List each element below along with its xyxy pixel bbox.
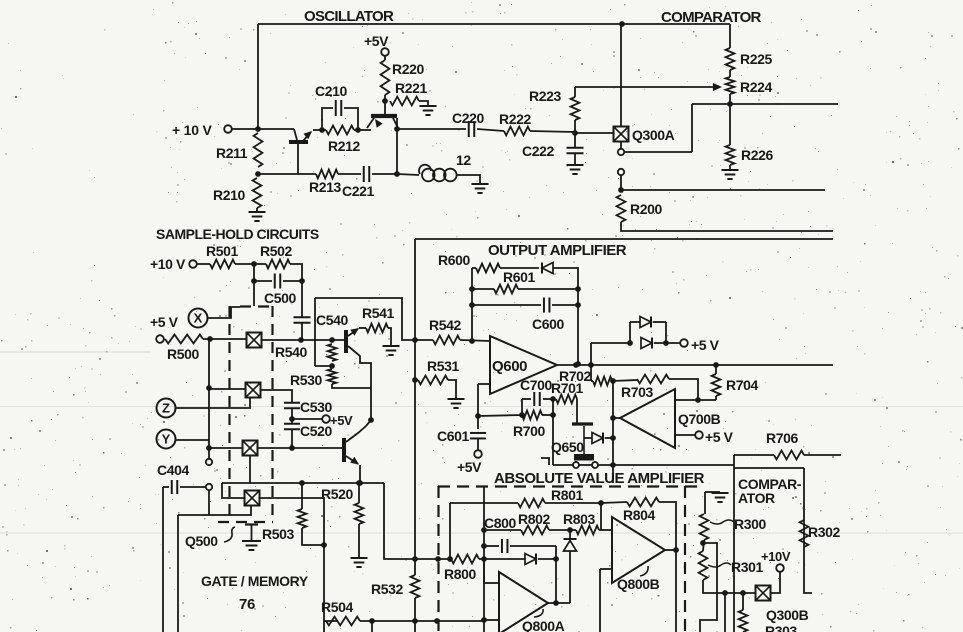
svg-text:Q300A: Q300A	[632, 127, 675, 143]
label ABSOLUTE VALUE AMPLIFIER	[494, 470, 705, 487]
wire	[484, 529, 521, 531]
capacitor C220	[469, 121, 475, 137]
label Q500	[185, 533, 218, 549]
junction	[673, 547, 679, 553]
label SAMPLE-HOLD CIRCUITS	[156, 226, 319, 242]
wire	[576, 399, 578, 423]
svg-text:12: 12	[456, 152, 471, 168]
wire	[548, 602, 570, 604]
terminal	[474, 450, 482, 458]
capacitor C520	[284, 424, 300, 430]
label Q800A	[522, 618, 565, 632]
junction	[567, 527, 573, 533]
label R530	[290, 372, 322, 388]
junction	[412, 618, 418, 624]
wire	[543, 398, 553, 400]
terminal	[618, 169, 624, 175]
wire	[371, 621, 373, 632]
wire	[232, 128, 294, 130]
label R706	[766, 430, 798, 446]
junction	[469, 286, 475, 292]
capacitor C800	[502, 539, 508, 553]
op-amp Q600	[490, 336, 557, 394]
wire	[477, 438, 479, 450]
junction	[356, 480, 362, 486]
junction	[713, 362, 719, 368]
junction	[382, 98, 388, 104]
svg-text:R502: R502	[260, 243, 292, 259]
label R542	[429, 317, 461, 333]
label Q700B	[678, 411, 721, 427]
resistor R532	[411, 575, 420, 598]
label OUTPUT AMPLIFIER	[488, 242, 627, 259]
svg-text:R532: R532	[371, 581, 403, 597]
svg-text:R212: R212	[328, 138, 360, 154]
wire	[729, 70, 731, 77]
wire	[396, 118, 398, 129]
wire	[584, 437, 592, 439]
wire	[313, 129, 326, 131]
resistor R224	[726, 77, 735, 94]
label R704	[726, 377, 758, 393]
svg-text:R701: R701	[551, 380, 583, 396]
junction	[610, 378, 616, 384]
label +5 V	[150, 314, 179, 330]
wire	[729, 165, 731, 169]
junction	[618, 187, 624, 193]
svg-text:R302: R302	[808, 524, 840, 540]
wire	[354, 129, 366, 131]
resistor R211	[254, 133, 263, 167]
svg-text:C601: C601	[437, 428, 469, 444]
wire	[177, 515, 179, 632]
svg-text:R501: R501	[206, 243, 238, 259]
wire	[770, 572, 780, 593]
junction	[394, 126, 400, 132]
resistor R700	[522, 411, 542, 420]
terminal	[618, 149, 624, 155]
wire	[478, 383, 490, 385]
wire	[715, 396, 717, 400]
svg-text:+10 V: +10 V	[150, 256, 186, 272]
label C540	[316, 312, 348, 328]
wire	[483, 487, 485, 632]
diode CR803	[564, 539, 577, 551]
wire	[484, 582, 499, 584]
resistor R502	[266, 260, 290, 269]
svg-text:Q800A: Q800A	[522, 618, 565, 632]
svg-text:R226: R226	[741, 147, 773, 163]
label C600	[532, 316, 564, 332]
wire	[260, 390, 292, 403]
wire	[552, 399, 554, 415]
resistor R226	[726, 145, 735, 165]
wire	[477, 384, 479, 416]
diode CR650	[592, 433, 603, 444]
wire	[359, 465, 361, 483]
svg-text:R706: R706	[766, 430, 798, 446]
label R501	[206, 243, 238, 259]
wire	[315, 298, 415, 340]
junction	[368, 417, 374, 423]
wire	[372, 173, 397, 175]
junction	[722, 590, 728, 596]
terminal	[680, 339, 688, 347]
wire	[358, 483, 360, 503]
wire	[691, 104, 693, 152]
junction	[435, 556, 441, 562]
junction	[481, 617, 487, 623]
label R503	[262, 526, 294, 542]
label R502	[260, 243, 292, 259]
label C220	[452, 110, 484, 126]
label 12	[456, 152, 471, 168]
junction	[329, 337, 335, 343]
capacitor C404	[172, 480, 178, 494]
svg-text:C500: C500	[264, 290, 296, 306]
label R803	[563, 511, 595, 527]
junction	[481, 527, 487, 533]
wire	[541, 458, 549, 465]
junction	[700, 540, 706, 546]
label COMPAR-	[738, 476, 802, 492]
wire	[620, 142, 622, 148]
resistor R541	[366, 324, 388, 333]
wire	[259, 498, 324, 632]
junction	[251, 278, 257, 284]
junction	[519, 412, 525, 418]
wire	[591, 380, 593, 382]
ground	[420, 106, 437, 115]
wire	[715, 365, 717, 374]
label Q800B	[617, 576, 660, 592]
resistor R223	[571, 97, 580, 120]
wire	[665, 322, 667, 343]
svg-text:ATOR: ATOR	[738, 490, 775, 506]
label R212	[328, 138, 360, 154]
resistor R221	[390, 97, 419, 106]
resistor R500	[165, 335, 203, 344]
junction	[481, 556, 487, 562]
capacitor C601	[470, 433, 486, 439]
wire	[599, 569, 601, 632]
wire	[257, 447, 342, 449]
wire	[729, 24, 731, 48]
ground	[448, 399, 465, 408]
wire	[450, 502, 518, 504]
wire	[477, 416, 479, 429]
wire	[235, 263, 266, 265]
wire	[178, 505, 251, 515]
inductor L12	[419, 165, 457, 182]
svg-text:R211: R211	[216, 145, 248, 161]
resistor R801	[518, 499, 545, 508]
wire	[359, 327, 366, 329]
wire	[542, 414, 553, 416]
label R601	[503, 269, 535, 285]
wire	[574, 87, 576, 97]
wire	[396, 129, 398, 174]
label Q300A	[632, 127, 675, 143]
svg-text:76: 76	[239, 596, 255, 613]
label R221	[395, 80, 427, 96]
junction	[321, 542, 327, 548]
svg-text:R300: R300	[734, 516, 766, 532]
wire	[574, 153, 576, 164]
wire	[659, 502, 676, 632]
svg-text:R220: R220	[392, 61, 424, 77]
wire	[414, 239, 416, 575]
wire	[322, 108, 333, 130]
transistor Q540	[346, 328, 371, 420]
wire	[419, 101, 428, 105]
wire	[456, 175, 480, 183]
svg-text:COMPARATOR: COMPARATOR	[661, 9, 762, 26]
wire	[552, 415, 554, 465]
label +5V	[330, 413, 353, 428]
junction	[663, 340, 669, 346]
svg-text:R301: R301	[731, 559, 763, 575]
wire	[208, 307, 240, 318]
junction	[598, 500, 604, 506]
svg-text:C404: C404	[157, 462, 189, 478]
resistor R800	[451, 555, 479, 564]
wire	[733, 455, 735, 632]
resistor R222	[504, 127, 530, 136]
wire	[290, 264, 302, 281]
label +10V	[761, 549, 791, 564]
wire	[557, 364, 833, 366]
junction	[255, 171, 261, 177]
wire	[208, 491, 210, 515]
junction	[575, 302, 581, 308]
svg-text:X: X	[194, 311, 203, 326]
junction	[206, 445, 212, 451]
label R211	[216, 145, 248, 161]
resistor R503	[298, 509, 307, 528]
wire	[692, 103, 838, 105]
terminal	[695, 431, 703, 439]
wire	[598, 464, 734, 466]
wire	[477, 129, 504, 131]
wire	[500, 267, 539, 269]
svg-text:R224: R224	[740, 79, 772, 95]
wire	[315, 365, 332, 367]
svg-text:Z: Z	[162, 401, 170, 416]
wire	[734, 454, 774, 456]
svg-text:Q300B: Q300B	[766, 607, 809, 623]
svg-text:R530: R530	[290, 372, 322, 388]
resistor R531	[418, 376, 448, 385]
label C210	[315, 83, 347, 99]
label Q650	[551, 439, 584, 455]
wire	[804, 454, 841, 456]
svg-text:R542: R542	[429, 317, 461, 333]
ground	[383, 346, 400, 355]
junction	[610, 415, 616, 421]
wire	[654, 342, 680, 344]
node X	[189, 309, 208, 328]
wire	[545, 502, 601, 504]
wire	[569, 530, 571, 539]
label Q300B	[766, 607, 809, 623]
junction	[588, 362, 594, 368]
terminal	[156, 335, 164, 343]
junction	[329, 363, 335, 369]
svg-text:R704: R704	[726, 377, 758, 393]
junction	[412, 556, 418, 562]
gate gate Y	[243, 441, 258, 456]
wire	[301, 483, 303, 509]
capacitor C540	[294, 317, 311, 323]
wire	[197, 263, 210, 265]
label R540	[275, 344, 307, 360]
label R702	[559, 368, 591, 384]
wire	[388, 328, 391, 345]
wire	[222, 483, 244, 498]
wire	[283, 280, 302, 282]
terminal	[206, 484, 212, 490]
wire	[729, 94, 731, 145]
pointer Q800A	[534, 609, 543, 617]
label R200	[630, 201, 662, 217]
junction	[573, 362, 579, 368]
junction	[727, 101, 733, 107]
wire	[569, 551, 571, 603]
op-amp Q700B	[620, 389, 675, 448]
wire	[291, 429, 293, 448]
svg-text:R222: R222	[499, 111, 531, 127]
wire	[175, 439, 209, 441]
junction	[481, 543, 487, 549]
wire	[521, 399, 523, 415]
wire	[332, 384, 371, 388]
svg-text:R804: R804	[623, 507, 655, 523]
wire	[253, 264, 255, 306]
resistor R702	[593, 377, 612, 386]
svg-text:R221: R221	[395, 80, 427, 96]
wire	[338, 173, 361, 175]
label R303	[765, 623, 797, 632]
capacitor C222	[567, 148, 584, 154]
svg-text:R801: R801	[551, 487, 583, 503]
ground	[351, 558, 368, 567]
label R703	[621, 384, 653, 400]
label R224	[740, 79, 772, 95]
capacitor C600	[544, 298, 550, 313]
junction	[553, 556, 559, 562]
pointer R300	[710, 520, 734, 524]
wire	[249, 455, 251, 483]
wire	[397, 174, 419, 175]
svg-text:R540: R540	[275, 344, 307, 360]
wire	[203, 338, 247, 340]
wire	[510, 545, 556, 547]
label +5 V	[691, 337, 720, 353]
svg-text:R503: R503	[262, 526, 294, 542]
label R210	[213, 187, 245, 203]
resistor R803	[576, 526, 599, 535]
dashed abs box	[438, 486, 697, 632]
wire	[675, 434, 695, 436]
label R802	[518, 511, 550, 527]
label R801	[551, 487, 583, 503]
junction	[695, 397, 701, 403]
junction	[299, 480, 305, 486]
wire	[258, 23, 730, 25]
svg-text:C221: C221	[342, 183, 374, 199]
junction	[412, 377, 418, 383]
label R300	[734, 516, 766, 532]
label R600	[438, 252, 470, 268]
svg-text:SAMPLE-HOLD CIRCUITS: SAMPLE-HOLD CIRCUITS	[156, 226, 319, 242]
label C601	[437, 428, 469, 444]
svg-text:R802: R802	[518, 511, 550, 527]
wire	[518, 288, 578, 290]
terminal	[573, 462, 579, 468]
label R532	[371, 581, 403, 597]
label C221	[342, 183, 374, 199]
junction	[447, 556, 453, 562]
terminal	[322, 415, 330, 423]
label C800	[484, 515, 516, 531]
wire	[621, 222, 833, 231]
resistor R501	[210, 260, 235, 269]
ground	[722, 170, 739, 179]
svg-text:OSCILLATOR: OSCILLATOR	[304, 8, 394, 25]
resistor R701	[556, 395, 577, 404]
wire	[472, 304, 541, 306]
wire	[484, 545, 499, 547]
junction	[355, 127, 361, 133]
wire	[414, 598, 416, 632]
terminal	[381, 48, 389, 56]
junction	[475, 413, 481, 419]
junction	[610, 435, 616, 441]
wire	[415, 379, 418, 381]
ground	[712, 493, 729, 502]
wire	[460, 340, 490, 341]
junction	[575, 286, 581, 292]
wire	[301, 281, 303, 317]
label R223	[529, 88, 561, 104]
resistor R303	[739, 610, 748, 632]
wire	[575, 132, 613, 134]
resistor R520	[355, 503, 364, 524]
gate Q300B	[756, 586, 771, 601]
wire	[624, 151, 692, 153]
wire	[484, 619, 499, 621]
pointer Q500	[224, 527, 235, 542]
wire	[397, 128, 466, 130]
junction	[550, 412, 556, 418]
svg-text:C540: C540	[316, 312, 348, 328]
svg-text:+5V: +5V	[457, 459, 482, 475]
svg-text:R213: R213	[309, 179, 341, 195]
wire	[256, 208, 258, 211]
label OSCILLATOR	[304, 8, 394, 25]
capacitor C210	[336, 100, 342, 116]
wire	[449, 503, 451, 559]
svg-text:R600: R600	[438, 252, 470, 268]
terminal	[592, 462, 598, 468]
gate Q300A	[614, 127, 629, 142]
svg-text:C700: C700	[520, 377, 552, 393]
wire	[162, 487, 164, 632]
svg-text:Q650: Q650	[551, 439, 584, 455]
svg-text:+5V: +5V	[330, 413, 353, 428]
resistor R504	[326, 617, 360, 626]
